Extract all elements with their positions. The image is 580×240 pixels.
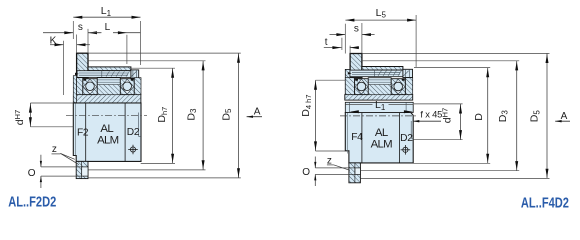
svg-text:ALM: ALM: [371, 138, 393, 150]
right unit hatch left segment: [345, 78, 354, 95]
caption AL..F4D2: [521, 194, 569, 211]
axis centerline (right): [340, 115, 418, 117]
svg-text:D2: D2: [127, 127, 140, 138]
axis centerline: [66, 114, 147, 116]
D2 recess step: [139, 135, 142, 137]
inner ring sleeve top: [88, 67, 131, 71]
D2 recess step (right unit): [411, 137, 413, 139]
dimension s (right): [330, 34, 346, 36]
inner ring collar: [77, 53, 88, 77]
svg-text:A: A: [561, 111, 568, 122]
svg-text:ALM: ALM: [97, 134, 119, 146]
right unit bearing ball: [394, 82, 403, 91]
left unit bearing ball: [86, 82, 95, 91]
D2 recess vertical (right unit): [410, 121, 412, 138]
svg-text:A: A: [254, 107, 261, 118]
D2 recess vertical: [138, 113, 140, 137]
svg-text:O: O: [302, 167, 310, 178]
dimension O: [41, 166, 76, 168]
F2 cover inner edge: [75, 103, 77, 155]
dimension L1: [72, 21, 74, 39]
dimension Dh7: [131, 67, 175, 69]
shaft foot section (right): [349, 163, 361, 183]
svg-text:D: D: [473, 113, 485, 121]
outer ring section band: [73, 95, 140, 103]
dimension D (right): [414, 67, 490, 69]
svg-text:t: t: [325, 37, 328, 48]
left unit hatch left segment: [77, 78, 83, 95]
right unit bearing box: [355, 79, 369, 95]
dimension D3 (right): [362, 60, 519, 62]
svg-text:K: K: [50, 36, 57, 47]
screw tip arrow: [75, 73, 79, 76]
right unit hatch right segment: [405, 78, 412, 95]
shaft foot section: [76, 161, 88, 178]
dimension O (right): [315, 167, 349, 169]
svg-text:F4: F4: [351, 132, 363, 143]
svg-text:O: O: [28, 168, 36, 179]
svg-text:f x 45: f x 45: [420, 108, 442, 119]
thread marks (right): [378, 71, 381, 76]
left unit bearing box: [120, 79, 134, 95]
dimension s: [43, 32, 73, 34]
left unit hatch right segment: [134, 78, 141, 95]
sleeve top band (right): [362, 67, 403, 71]
caption AL..F2D2: [8, 193, 56, 210]
right unit bearing box: [391, 79, 405, 95]
svg-text:L: L: [105, 22, 111, 33]
screw tip arrow (right): [348, 72, 352, 75]
screw hex head: [131, 70, 139, 78]
svg-text:AL..F2D2: AL..F2D2: [8, 193, 56, 210]
right unit bearing ball: [357, 82, 366, 91]
dimension K: [50, 44, 64, 46]
dimension L: [88, 32, 102, 34]
right unit middle inner ring: [368, 78, 391, 95]
left unit bearing box: [83, 79, 97, 95]
svg-text:F2: F2: [77, 128, 89, 139]
clamping screw shank: [77, 71, 131, 78]
D2 cover left edge (right unit): [399, 113, 401, 163]
housing body F4D2: [345, 113, 413, 163]
dimension dH7 (right): [414, 103, 463, 105]
svg-text:s: s: [354, 23, 359, 34]
outer ring band (right): [345, 95, 413, 101]
lube hole crosshair: [128, 145, 138, 155]
dimension t: [324, 47, 342, 49]
F4 cover plate section: [345, 69, 350, 94]
lube hole crosshair (right): [401, 145, 411, 155]
thread marks: [106, 71, 109, 76]
screw hex head (right): [403, 69, 413, 77]
L1 internal dimension: [346, 104, 373, 106]
dimension D3: [88, 60, 205, 62]
left unit middle inner ring: [97, 78, 120, 95]
svg-text:AL: AL: [375, 127, 388, 139]
dimension dH7: [30, 102, 73, 104]
F4 cover inner edge: [347, 113, 349, 154]
F2 cover right edge: [85, 103, 87, 161]
svg-text:D2: D2: [400, 133, 413, 144]
keyway notch (right): [355, 168, 361, 175]
svg-text:AL..F4D2: AL..F4D2: [521, 194, 569, 211]
dimension D5 (right): [362, 52, 549, 54]
clamping screw shank (right): [350, 70, 403, 77]
left unit bearing ball: [123, 82, 132, 91]
D2 cover left edge: [124, 103, 126, 161]
sleeve zone (L1): [345, 102, 413, 112]
housing body F2D2: [73, 103, 141, 161]
F4 cover right edge: [361, 113, 363, 163]
dimension D5: [88, 52, 240, 54]
keyway notch: [82, 167, 88, 176]
svg-text:s: s: [78, 22, 83, 33]
dimension D4h7: [316, 79, 346, 81]
collar (right): [350, 54, 362, 78]
dimension L5: [344, 24, 346, 54]
F2 cover plate section: [73, 76, 76, 103]
